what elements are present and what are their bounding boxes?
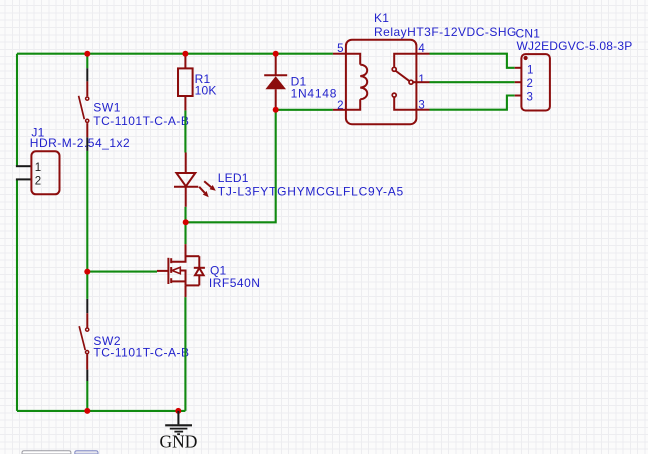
svg-text:TC-1101T-C-A-B: TC-1101T-C-A-B bbox=[93, 346, 189, 360]
svg-text:RelayHT3F-12VDC-SHG: RelayHT3F-12VDC-SHG bbox=[374, 25, 517, 39]
svg-text:3: 3 bbox=[527, 92, 533, 104]
svg-text:WJ2EDGVC-5.08-3P: WJ2EDGVC-5.08-3P bbox=[517, 39, 633, 53]
svg-text:10K: 10K bbox=[195, 83, 217, 97]
svg-text:HDR-M-2.54_1x2: HDR-M-2.54_1x2 bbox=[30, 136, 130, 150]
svg-text:2: 2 bbox=[35, 175, 41, 187]
svg-text:SW1: SW1 bbox=[93, 101, 121, 115]
svg-text:LED1: LED1 bbox=[218, 171, 249, 185]
svg-text:1N4148: 1N4148 bbox=[291, 87, 338, 101]
svg-text:TC-1101T-C-A-B: TC-1101T-C-A-B bbox=[93, 114, 189, 128]
svg-text:K1: K1 bbox=[374, 11, 389, 25]
svg-text:1: 1 bbox=[527, 64, 533, 76]
svg-text:IRF540N: IRF540N bbox=[209, 276, 261, 290]
svg-text:1: 1 bbox=[35, 162, 41, 174]
svg-text:TJ-L3FYTGHYMCGLFLC9Y-A5: TJ-L3FYTGHYMCGLFLC9Y-A5 bbox=[218, 185, 404, 199]
svg-text:2: 2 bbox=[527, 78, 533, 90]
svg-text:1: 1 bbox=[418, 74, 424, 86]
